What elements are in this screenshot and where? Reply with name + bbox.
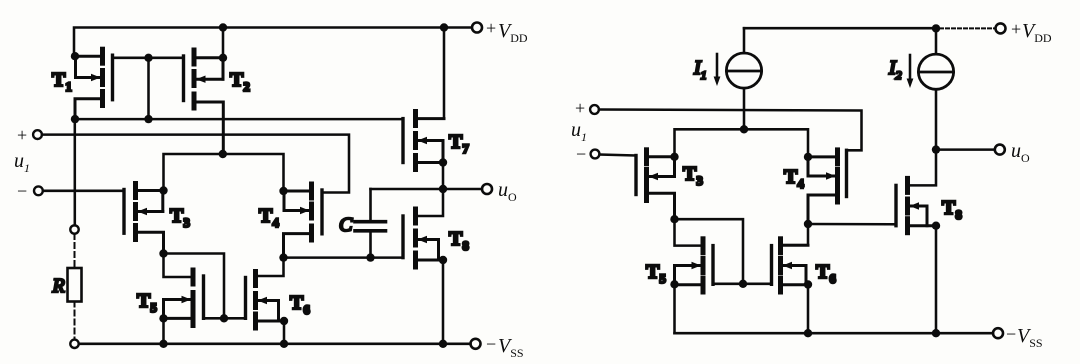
junction dot cap bottom bbox=[366, 253, 374, 261]
wire +VDD top rail (left circuit) bbox=[74, 28, 472, 57]
transistor T8 (right) bbox=[896, 178, 936, 232]
junction dot T6 source (right) bbox=[804, 280, 812, 288]
junction dot T1 source bbox=[71, 52, 79, 60]
transistor T6 bbox=[246, 272, 285, 329]
junction dot rail/T2 bbox=[219, 23, 227, 31]
wire + input to T4 gate bbox=[42, 135, 349, 193]
junction dot T2 drain top bbox=[219, 54, 227, 62]
svg-text:+: + bbox=[486, 18, 496, 38]
wire T6 drain up to stage1 node bbox=[256, 258, 284, 276]
transistor T3 (right) bbox=[636, 150, 675, 219]
wire +VDD top rail (right circuit) bbox=[744, 27, 932, 30]
node T2 source to VDD rail bbox=[222, 28, 225, 58]
transistor T2 bbox=[184, 50, 224, 154]
wire uO node down to T8 drain (right) bbox=[908, 150, 937, 186]
transistor T8 bbox=[403, 209, 443, 267]
svg-text:T5: T5 bbox=[137, 290, 157, 315]
wire dashed R top bbox=[74, 234, 76, 268]
junction dot tail/I1 bbox=[740, 125, 748, 133]
wire gate tie to T5 gate (right) bbox=[713, 283, 743, 286]
svg-text:−: − bbox=[17, 181, 27, 201]
svg-text:C: C bbox=[339, 214, 353, 236]
svg-text:T7: T7 bbox=[449, 131, 469, 156]
terminal -VSS (right) bbox=[993, 328, 1003, 338]
resistor R bbox=[68, 268, 82, 302]
svg-text:VSS: VSS bbox=[1017, 325, 1043, 350]
terminal +VDD (right) bbox=[996, 23, 1006, 33]
terminal uO (left) bbox=[482, 184, 492, 194]
transistor T4 bbox=[284, 184, 323, 258]
wire uO output line bbox=[371, 188, 482, 191]
wire output node down to T8 drain bbox=[416, 189, 444, 216]
wire T1-T2 gate tie bbox=[113, 57, 184, 60]
junction dot T8 source bbox=[439, 256, 447, 264]
svg-text:T2: T2 bbox=[230, 69, 250, 94]
svg-text:I2: I2 bbox=[888, 57, 902, 82]
wire tail T2 drain to T3/T4 sources bbox=[164, 154, 284, 191]
resistor R top terminal circle bbox=[70, 225, 78, 233]
current source I2 bbox=[918, 28, 953, 149]
wire input bias node to R bbox=[74, 119, 77, 225]
svg-text:−: − bbox=[486, 334, 496, 354]
wire T3 drain to T5 drain (right) bbox=[675, 219, 704, 245]
wire tail T3/T4 sources to I1 (right) bbox=[675, 129, 809, 157]
junction dot stage1 output bbox=[279, 253, 287, 261]
wire - input to T3 gate (right) bbox=[600, 155, 637, 156]
wire T8 source to VSS rail (right) bbox=[935, 226, 938, 334]
terminal -VSS (left) bbox=[471, 339, 481, 349]
svg-text:T5: T5 bbox=[646, 261, 666, 286]
wire + input to T4 gate (right) bbox=[599, 110, 862, 151]
svg-text:T4: T4 bbox=[784, 166, 804, 191]
junction dot T5/T6 gate tie (right) bbox=[739, 280, 747, 288]
junction dot rail/T7 bbox=[440, 23, 448, 31]
transistor T7 bbox=[403, 112, 444, 170]
svg-text:R: R bbox=[52, 275, 65, 297]
junction dot T3 drain / mirror node bbox=[159, 249, 167, 257]
wire mirror node to T5/T6 gates bbox=[164, 254, 225, 319]
svg-text:I1: I1 bbox=[693, 57, 707, 82]
wire T6 source to VSS rail (right) bbox=[807, 285, 810, 334]
junction dot T3 drain node (right) bbox=[670, 215, 678, 223]
svg-text:u1: u1 bbox=[14, 150, 30, 175]
wire T6 source to VSS rail bbox=[283, 321, 286, 344]
wire rail dotted to terminal (right) bbox=[940, 27, 996, 29]
junction dot T8 source (right) bbox=[932, 222, 940, 230]
junction dot T4 source bbox=[279, 187, 287, 195]
terminal uO (right) bbox=[995, 145, 1005, 155]
terminal +VDD (left) bbox=[472, 23, 482, 33]
junction dot tail wire bbox=[219, 150, 227, 158]
wire T8 source to VSS rail bbox=[442, 260, 445, 344]
junction dot T3 source (right) bbox=[670, 153, 678, 161]
junction dot T4 drain node (right) bbox=[804, 220, 812, 228]
wire gate tie to T6 gate bbox=[224, 317, 246, 320]
junction dot T5 source bbox=[159, 314, 167, 322]
transistor T1 bbox=[75, 49, 113, 119]
svg-text:+: + bbox=[575, 98, 585, 118]
svg-text:T6: T6 bbox=[816, 261, 836, 286]
terminal - input (left) bbox=[34, 186, 43, 195]
junction dot rail/T6 bbox=[280, 340, 288, 348]
junction dot T6 source bbox=[280, 317, 288, 325]
wire gate tie to T5 gate bbox=[204, 317, 225, 320]
junction dot rail/T8 bbox=[439, 340, 447, 348]
junction dot rail/T6 (right) bbox=[804, 329, 812, 337]
transistor T3 bbox=[124, 184, 164, 254]
current source I1 bbox=[726, 28, 761, 129]
wire mirror gate feed (right) bbox=[675, 219, 744, 284]
svg-text:uO: uO bbox=[1011, 140, 1030, 165]
wire stage1 output to T8 gate (right) bbox=[808, 223, 896, 226]
junction dot uO node (right) bbox=[932, 145, 940, 153]
wire dashed R bottom bbox=[74, 302, 76, 340]
wire T4 drain down to T6 drain (right) bbox=[781, 224, 809, 245]
transistor T5 bbox=[164, 270, 204, 326]
wire -VSS bottom rail (right circuit) bbox=[675, 332, 994, 335]
wire uO output (right) bbox=[936, 148, 995, 151]
svg-text:u1: u1 bbox=[571, 119, 587, 144]
junction dot rail/I2 bbox=[932, 24, 940, 32]
wire T3 drain node down to T5 drain bbox=[164, 254, 194, 278]
svg-text:T3: T3 bbox=[170, 205, 190, 230]
wire - input to T3 gate bbox=[43, 190, 124, 193]
transistor T4 (right) bbox=[808, 150, 847, 224]
capacitor C bbox=[355, 189, 386, 258]
svg-text:uO: uO bbox=[498, 179, 517, 204]
wire T7 source to output node bbox=[442, 163, 445, 190]
transistor T5 (right) bbox=[675, 239, 714, 292]
svg-text:+: + bbox=[17, 125, 27, 145]
transistor T6 (right) bbox=[772, 239, 809, 292]
svg-text:T8: T8 bbox=[942, 197, 962, 222]
wire -VSS bottom rail (left circuit) bbox=[79, 343, 471, 346]
svg-text:T3: T3 bbox=[683, 163, 703, 188]
junction dot rail/T5 bbox=[159, 340, 167, 348]
terminal + input (left) bbox=[33, 130, 42, 139]
svg-text:−: − bbox=[1006, 324, 1016, 344]
wire bias line to T7 gate bbox=[75, 118, 403, 121]
wire gate tie to T6 gate (right) bbox=[743, 283, 772, 286]
junction dot T3 source bbox=[159, 186, 167, 194]
svg-text:T6: T6 bbox=[290, 292, 310, 317]
svg-text:T8: T8 bbox=[449, 228, 469, 253]
wire T5 source to VSS rail bbox=[162, 318, 165, 343]
terminal + input (right) bbox=[590, 105, 599, 114]
wire stage1 output to T8 gate bbox=[284, 256, 404, 259]
junction dot T5 source (right) bbox=[670, 280, 678, 288]
svg-text:T1: T1 bbox=[52, 69, 72, 94]
svg-text:VDD: VDD bbox=[1022, 20, 1052, 45]
junction dot gate tie bottom bbox=[144, 115, 152, 123]
wire gate tie down to bias line bbox=[147, 58, 150, 119]
resistor R bottom terminal circle bbox=[70, 340, 78, 348]
arrow I1 bbox=[714, 54, 721, 86]
junction dot T4 source (right) bbox=[804, 153, 812, 161]
svg-text:−: − bbox=[576, 144, 586, 164]
junction dot rail/T8 (right) bbox=[932, 329, 940, 337]
svg-text:T4: T4 bbox=[259, 205, 279, 230]
svg-text:+: + bbox=[1011, 19, 1021, 39]
terminal - input (right) bbox=[591, 150, 600, 159]
wire T5 source to VSS rail (right) bbox=[673, 284, 676, 333]
svg-text:VSS: VSS bbox=[498, 335, 524, 360]
node T7 drain to VDD rail bbox=[443, 28, 446, 119]
junction dot T7 source bbox=[439, 158, 447, 166]
junction dot T1 drain / bias node bbox=[71, 115, 79, 123]
junction dot T5/T6 gate tie bbox=[220, 314, 228, 322]
junction dot uO/T7-T8 bbox=[439, 185, 447, 193]
svg-text:VDD: VDD bbox=[498, 20, 528, 45]
junction dot gate tie top bbox=[144, 54, 152, 62]
arrow I2 bbox=[907, 55, 914, 88]
